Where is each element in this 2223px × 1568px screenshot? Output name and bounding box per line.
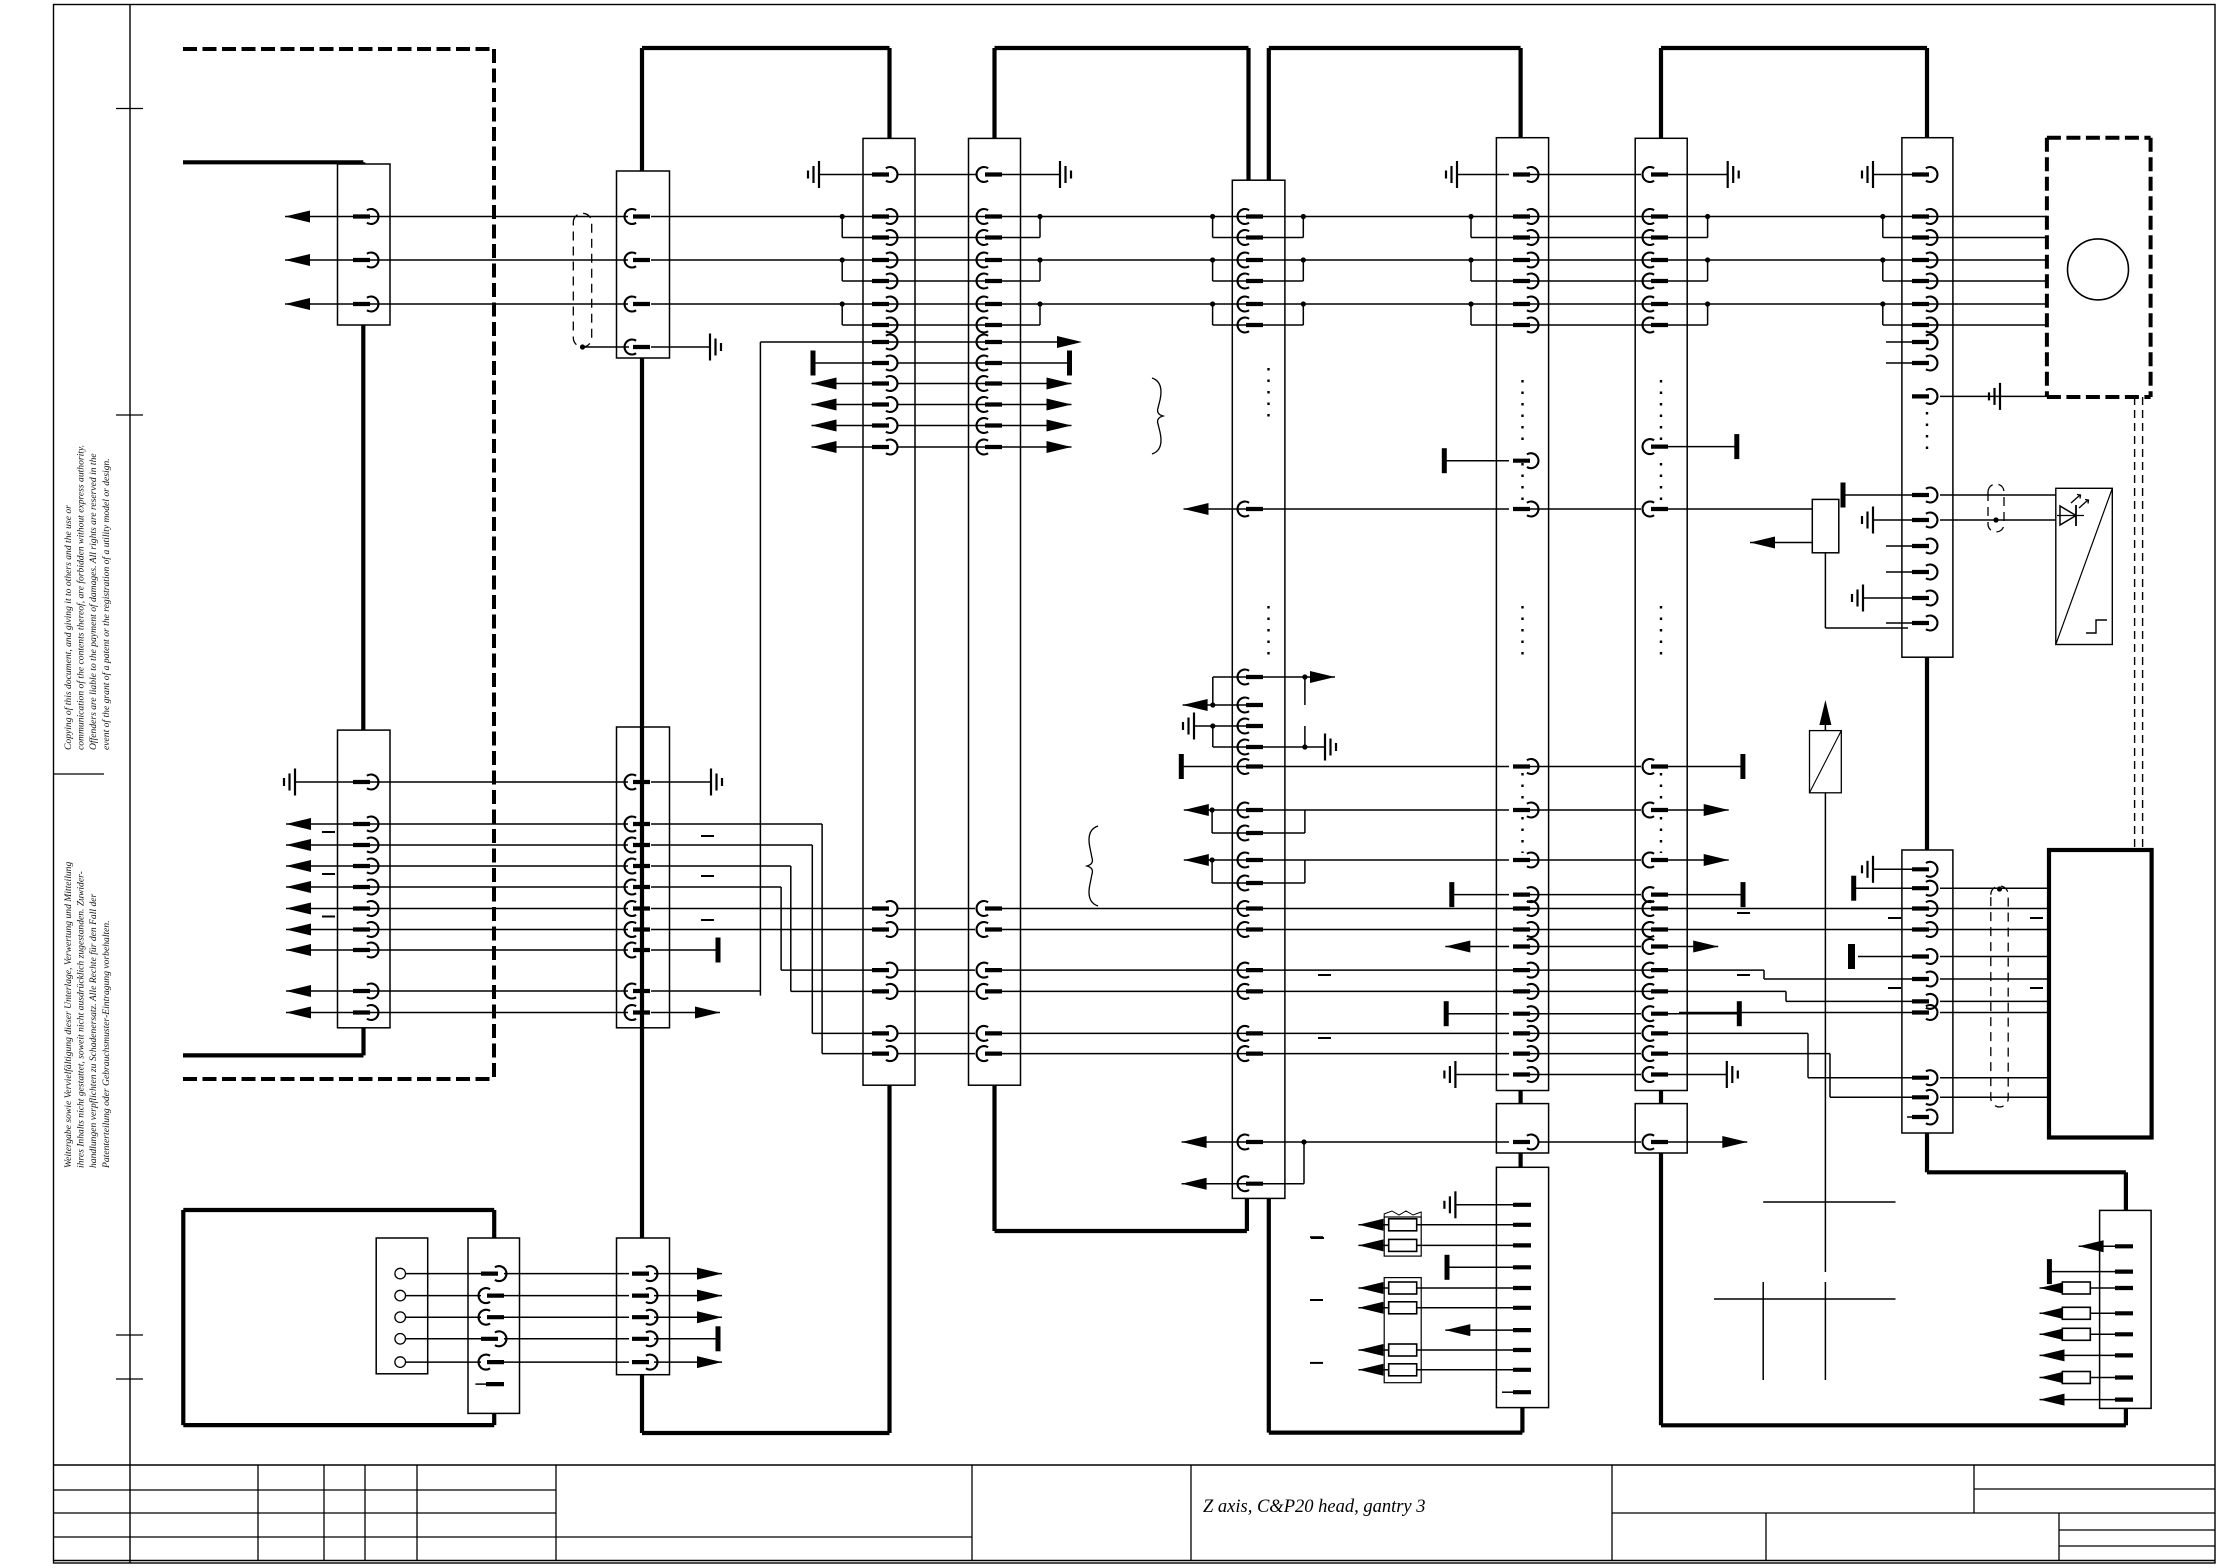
svg-text:communication of the contents: communication of the contents thereof, a… [76,445,87,750]
svg-text:Copying of this document, and: Copying of this document, and giving it … [63,505,74,750]
svg-text:event of the grant of a patent: event of the grant of a patent or the re… [101,458,112,750]
svg-text:Patenterteilung oder Gebrauchs: Patenterteilung oder Gebrauchsmuster-Ein… [101,920,112,1169]
svg-text:handlungen verpflichten zu Sch: handlungen verpflichten zu Schadenersatz… [88,893,99,1168]
svg-text:Weitergabe sowie Vervielfältig: Weitergabe sowie Vervielfältigung dieser… [63,862,74,1168]
svg-text:Offenders are liable to the pa: Offenders are liable to the payment of d… [88,453,99,750]
svg-text:ihres Inhalts nicht gestattet,: ihres Inhalts nicht gestattet, soweit ni… [76,871,87,1168]
svg-text:Z axis, C&P20 head, gantry 3: Z axis, C&P20 head, gantry 3 [1203,1497,1426,1517]
